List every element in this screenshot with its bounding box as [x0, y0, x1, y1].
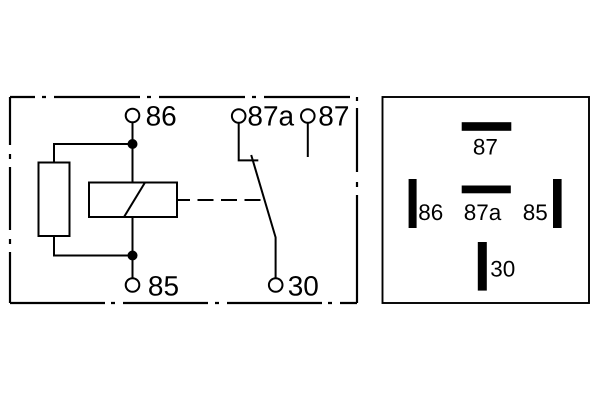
wire coil to bottom junction — [132, 217, 134, 256]
relay enclosure phantom border bottom — [10, 302, 357, 304]
svg-text:87a: 87a — [247, 100, 294, 131]
node top junction — [128, 139, 138, 149]
wire resistor bottom to bottom junction — [54, 236, 133, 256]
terminal 86 — [126, 101, 177, 132]
relay enclosure phantom border left — [9, 97, 11, 303]
relay enclosure phantom border top — [10, 96, 357, 98]
pin 85 pad — [523, 179, 562, 228]
pin 87 pad — [462, 122, 512, 159]
wire 86 to top junction — [132, 123, 134, 145]
relay coil K1 — [89, 183, 177, 218]
connector pin-layout box — [383, 97, 590, 303]
wire 87a normally-closed contact — [239, 123, 259, 160]
wire bottom junction to terminal 85 — [132, 256, 134, 279]
svg-text:85: 85 — [148, 270, 179, 301]
wire top junction to resistor branch — [54, 144, 133, 163]
node bottom junction — [128, 251, 138, 261]
dashed actuation link coil to arm — [177, 199, 262, 201]
relay enclosure phantom border right — [356, 97, 358, 303]
pin 86 pad — [409, 179, 444, 228]
svg-text:85: 85 — [523, 200, 548, 225]
switch arm (movable contact) — [251, 155, 275, 278]
svg-text:30: 30 — [288, 270, 319, 301]
pin 87a pad — [462, 186, 511, 226]
svg-text:87a: 87a — [464, 200, 502, 225]
svg-text:30: 30 — [490, 257, 515, 282]
svg-text:86: 86 — [418, 200, 443, 225]
resistor R (parallel resistor) — [39, 163, 70, 237]
wire top junction to coil — [132, 144, 134, 183]
terminal 87 — [301, 100, 349, 131]
terminal 30 — [269, 270, 319, 301]
terminal 85 — [126, 270, 179, 301]
pin 30 pad — [478, 242, 516, 291]
terminal 87a — [232, 100, 295, 131]
svg-text:86: 86 — [146, 101, 177, 132]
svg-text:87: 87 — [318, 100, 349, 131]
svg-text:87: 87 — [473, 135, 498, 160]
wire 87 normally-open contact stub — [307, 123, 309, 157]
